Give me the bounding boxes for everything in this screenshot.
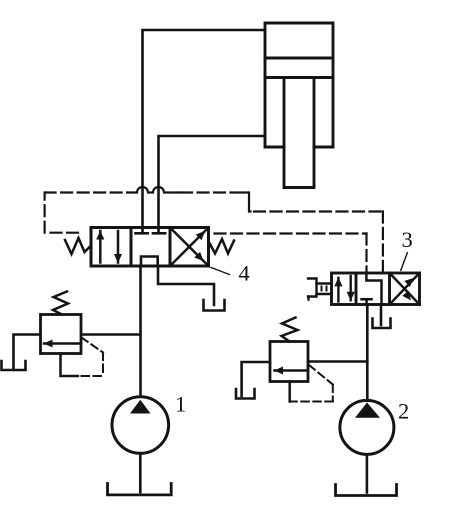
relief valve R2 spring: [282, 318, 298, 342]
valve 3 right position crossed arrows: [390, 273, 420, 305]
pump 1 suction line: [139, 453, 142, 492]
wire P1 (valve 4 to pump 1): [139, 266, 142, 397]
pilot line from valve 4 left end (dashed): [45, 193, 128, 233]
wire R1 inlet from pump 1 line: [81, 333, 141, 336]
pilot line continues to valve 3 (dashed): [181, 193, 383, 272]
wire T2 (valve 3 to tank): [380, 306, 383, 325]
pump 2 flow triangle: [355, 403, 380, 418]
wire B (valve 4 to cylinder rod end): [159, 136, 266, 228]
pump 1 flow triangle: [130, 400, 151, 414]
valve 4 left position arrows: [100, 231, 118, 263]
valve 4 right spring: [210, 239, 234, 254]
relief valve R1 arrow: [44, 342, 81, 345]
pilot line corner step: [236, 193, 251, 212]
wire A (valve 4 to cylinder cap end): [143, 30, 266, 228]
valve 4 right position crossed arrows: [170, 228, 209, 267]
valve 4 centre position blocked ports: [136, 228, 166, 267]
relief valve R2 drain: [288, 382, 291, 402]
valve 4 left spring: [65, 238, 91, 254]
svg-text:1: 1: [175, 392, 186, 417]
svg-text:3: 3: [402, 227, 413, 252]
wire R2 inlet from pump 2 line: [308, 360, 367, 363]
pilot line from valve 4 right end to valve 3 (dashed): [215, 234, 367, 273]
relief valve R2 arrow: [275, 369, 309, 372]
relief valve R1 spring: [53, 292, 68, 315]
tank under valve 4: [204, 300, 225, 311]
valve 3 left position arrows: [338, 276, 350, 302]
wire R2 outlet to tank: [242, 362, 270, 396]
relief valve R1 pilot line (dashed): [79, 338, 103, 377]
tank under pump 1: [108, 484, 172, 495]
tank under valve 3: [373, 319, 391, 329]
cylinder body: [265, 23, 333, 147]
relief valve R2 body: [270, 342, 308, 382]
cylinder piston rod: [284, 78, 314, 188]
relief valve R1 drain: [61, 354, 79, 377]
leader line for label 4: [211, 268, 230, 275]
wire T1 (valve 4 to tank): [158, 266, 214, 305]
tank under relief valve R2: [236, 389, 255, 399]
valve 3 centre position path and blocked port: [362, 273, 382, 305]
pump 1: [112, 397, 169, 454]
svg-text:4: 4: [239, 261, 250, 286]
valve 3 body: [332, 273, 420, 305]
wire P2 (valve 3 to pump 2): [366, 305, 369, 401]
relief valve R1 body: [41, 315, 82, 354]
leader line for label 3: [401, 253, 408, 270]
relief valve R2 pilot line (dashed): [290, 365, 333, 402]
pump 2: [340, 400, 394, 454]
pilot line hops over wires A and B: [128, 187, 181, 193]
pump 2 suction line: [366, 454, 369, 492]
valve 3 left actuator: [308, 279, 332, 300]
tank under pump 2: [336, 485, 397, 496]
tank under relief valve R1: [2, 361, 26, 370]
valve 4 body: [91, 228, 209, 267]
wire R1 outlet to tank: [14, 335, 41, 369]
svg-text:2: 2: [398, 399, 409, 424]
